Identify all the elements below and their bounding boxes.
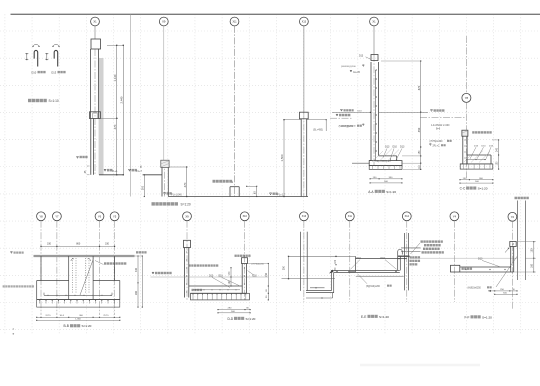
svg-text:D10: D10 (219, 276, 224, 278)
svg-text:X13: X13 (302, 215, 307, 218)
svg-text:D13: D13 (385, 146, 390, 149)
svg-text:240: 240 (496, 147, 499, 152)
svg-text:D10: D10 (253, 276, 258, 278)
svg-text:257.5: 257.5 (103, 315, 109, 317)
svg-text:S=1:20: S=1:20 (386, 190, 396, 194)
svg-text:Y7: Y7 (55, 214, 59, 218)
svg-text:2FL+C: 2FL+C (433, 146, 440, 148)
svg-text:F-F: F-F (465, 315, 470, 319)
svg-text:450: 450 (417, 127, 421, 132)
svg-text:D-D: D-D (228, 317, 234, 321)
svg-text:160: 160 (531, 263, 534, 268)
svg-text:Y2: Y2 (511, 215, 515, 219)
svg-text:E-E: E-E (361, 315, 366, 319)
svg-text:S=1:20: S=1:20 (181, 203, 191, 207)
svg-text:Y8: Y8 (465, 96, 469, 100)
svg-text:(500910)@200: (500910)@200 (341, 66, 356, 68)
svg-text:Y5: Y5 (113, 214, 117, 218)
svg-text:150: 150 (265, 272, 268, 277)
svg-text:D10: D10 (31, 70, 36, 74)
svg-text:X12: X12 (405, 215, 410, 218)
svg-text:330: 330 (105, 243, 110, 246)
svg-text:D13: D13 (51, 70, 56, 74)
svg-text:D13: D13 (400, 146, 405, 149)
svg-text:1,360: 1,360 (75, 319, 81, 321)
svg-text:(70?6)4x200: (70?6)4x200 (252, 264, 265, 266)
svg-text:X11: X11 (232, 20, 237, 23)
svg-text:X13: X13 (302, 20, 307, 23)
svg-text:350: 350 (282, 265, 285, 270)
svg-text:GL+05: GL+05 (353, 72, 361, 74)
svg-text:S=1:20: S=1:20 (478, 187, 488, 191)
svg-text:D13: D13 (478, 258, 483, 261)
svg-text:S=1:20: S=1:20 (482, 315, 492, 319)
svg-text:1,500: 1,500 (280, 154, 284, 161)
svg-text:1,140: 1,140 (113, 74, 117, 81)
svg-text:X10: X10 (243, 215, 248, 218)
svg-text:A-A: A-A (368, 190, 374, 194)
svg-text:S=1:20: S=1:20 (246, 317, 256, 321)
svg-text:FL+L: FL+L (112, 170, 118, 173)
svg-text:D13: D13 (209, 276, 214, 278)
svg-text:B=5: B=5 (436, 128, 441, 130)
svg-text:(H)910x6250: (H)910x6250 (468, 288, 482, 290)
svg-text:(5@910)x200: (5@910)x200 (366, 286, 381, 288)
svg-text:C-C: C-C (460, 187, 466, 191)
svg-text:D10: D10 (393, 146, 398, 149)
svg-text:D10: D10 (357, 257, 362, 260)
svg-text:X11: X11 (348, 215, 353, 218)
svg-text:S=1:10: S=1:10 (49, 99, 59, 103)
svg-text:FL+1,040: FL+1,040 (172, 193, 183, 196)
svg-text:400: 400 (135, 267, 138, 272)
svg-text:X1: X1 (372, 19, 376, 23)
svg-text:D10: D10 (381, 257, 386, 260)
svg-text:(SL+450): (SL+450) (313, 128, 323, 131)
svg-text:X9: X9 (185, 214, 189, 218)
svg-text:470: 470 (113, 124, 117, 129)
svg-text:330: 330 (47, 243, 52, 246)
svg-text:S=1:20: S=1:20 (82, 324, 92, 328)
svg-text:FL+7: FL+7 (137, 170, 143, 173)
svg-text:300: 300 (141, 185, 144, 190)
svg-text:X9: X9 (162, 19, 166, 23)
svg-text:Y4: Y4 (453, 214, 457, 218)
svg-text:Y6: Y6 (98, 214, 102, 218)
svg-text:280: 280 (135, 290, 138, 295)
svg-text:B-B: B-B (64, 324, 69, 328)
svg-text:1-4x4'6#12 L=400: 1-4x4'6#12 L=400 (431, 125, 450, 127)
svg-text:Y8: Y8 (39, 214, 43, 218)
svg-text:860: 860 (76, 243, 81, 246)
svg-text:X1: X1 (93, 19, 97, 23)
svg-text:S=1:20: S=1:20 (379, 315, 389, 319)
svg-text:470: 470 (183, 182, 187, 187)
svg-text:870: 870 (417, 85, 421, 90)
svg-text:150: 150 (531, 248, 534, 253)
svg-text:(500910)@200: (500910)@200 (341, 125, 356, 127)
svg-text:(70?6)4x200: (70?6)4x200 (430, 141, 444, 143)
svg-text:317.5: 317.5 (45, 315, 51, 317)
svg-text:2,440: 2,440 (120, 96, 124, 103)
svg-text:D13: D13 (359, 55, 364, 57)
